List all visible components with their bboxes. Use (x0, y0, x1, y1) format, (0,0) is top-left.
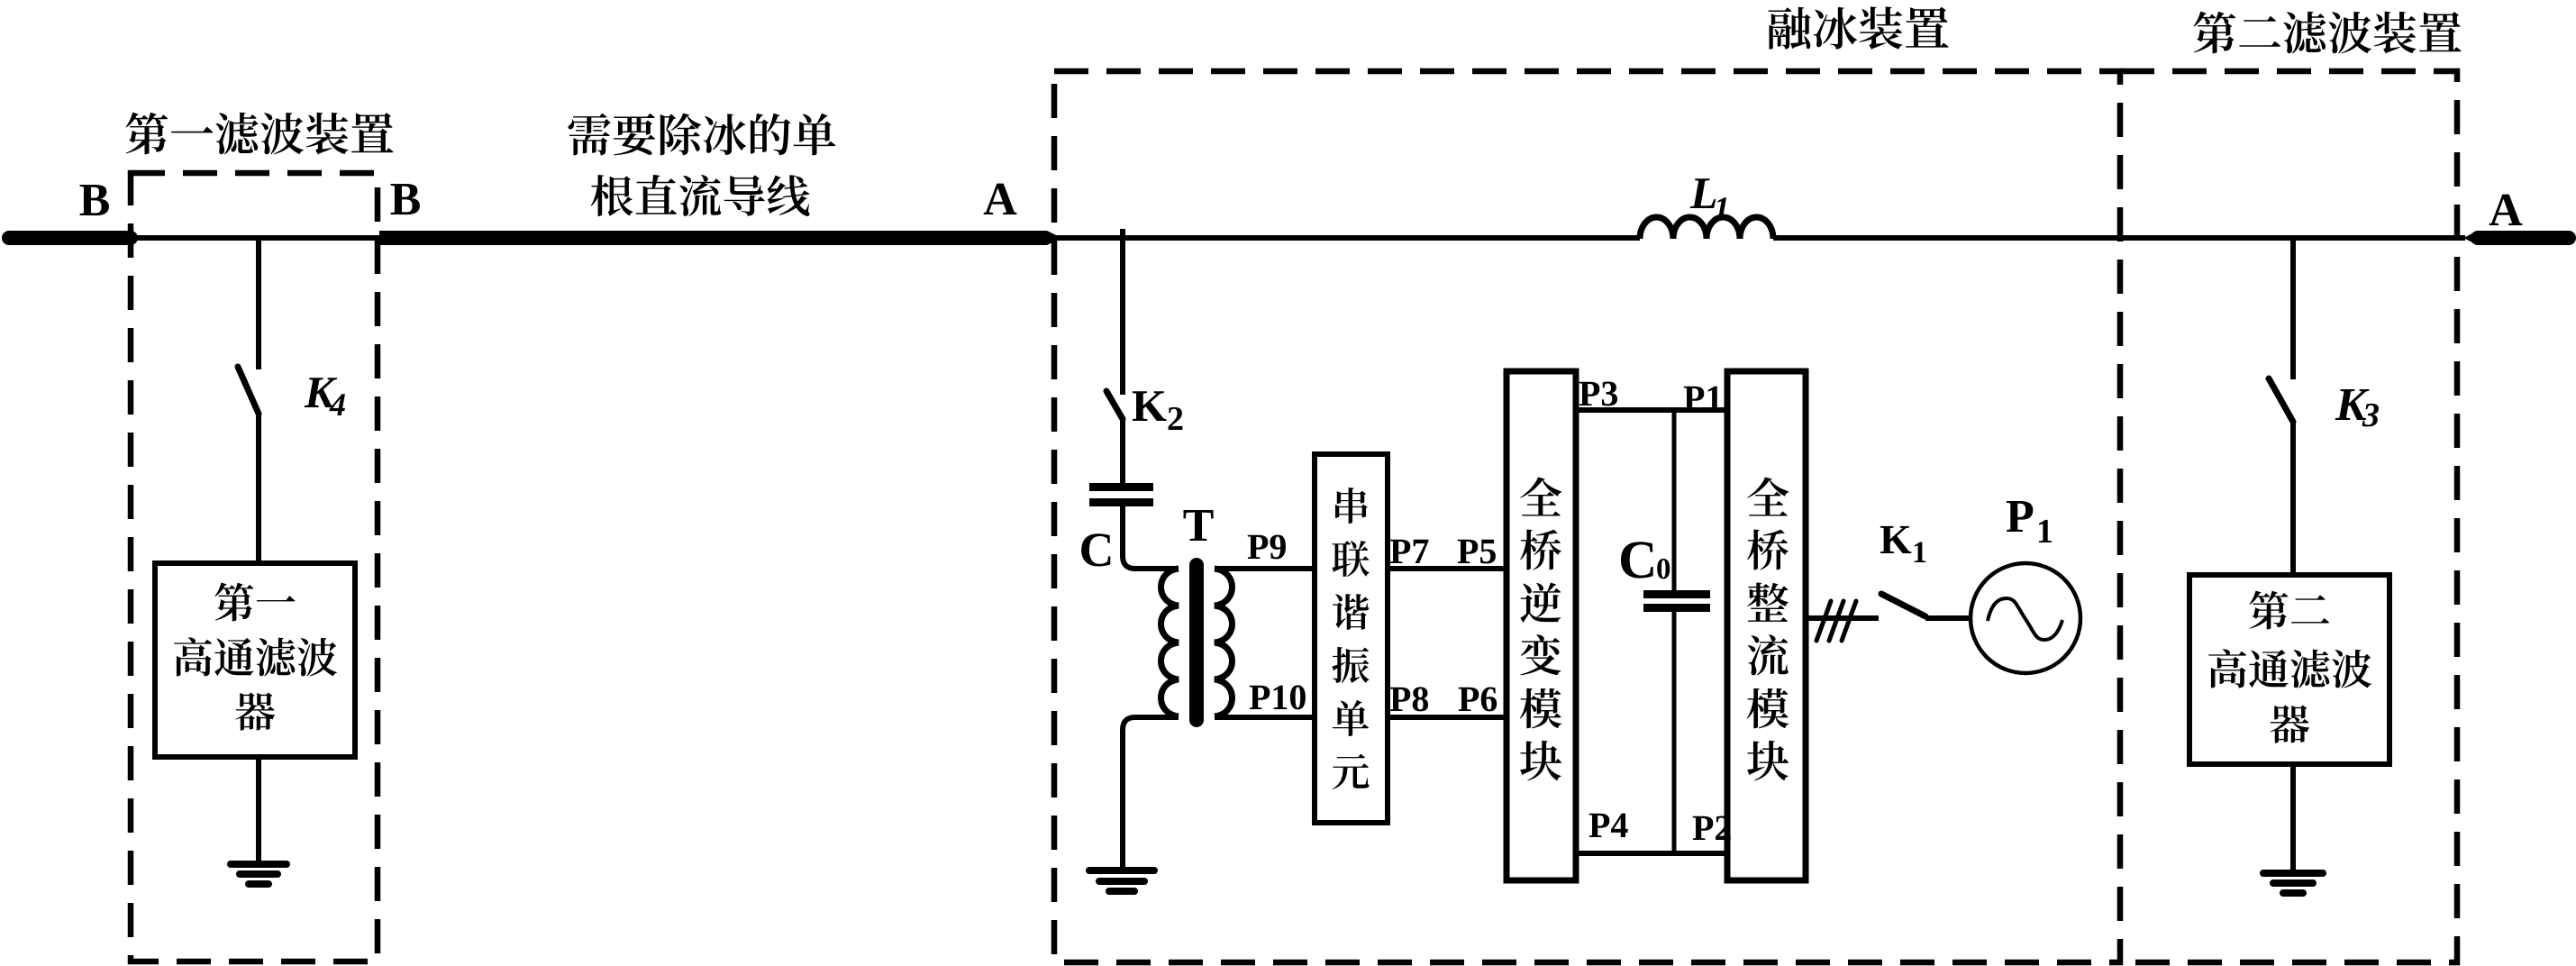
node junction bus to K2 branch (1120, 229, 1125, 395)
first filter device label 第一滤波装置 (126, 113, 394, 155)
full-bridge rectifier module box (1727, 371, 1806, 880)
wire bus to switch K3 (2290, 238, 2296, 379)
wire C0 top (1672, 410, 1677, 590)
wire P3 to P1 inverter to rectifier top (1576, 407, 1727, 413)
port label P3 (1579, 382, 1617, 406)
transformer T label (1184, 510, 1214, 541)
port label P8 (1390, 687, 1428, 711)
switch K2 blade (1106, 391, 1123, 419)
port label P6 (1459, 688, 1497, 712)
switch K2 label (1133, 391, 1183, 430)
port label P4 (1589, 814, 1628, 837)
ground second filter (2263, 873, 2323, 893)
series resonant unit label 串联谐振单元 (1332, 488, 1369, 789)
second high-pass filter box (2189, 575, 2389, 764)
wire P4 to P2 inverter to rectifier bottom (1576, 851, 1727, 856)
node A label left (984, 184, 1017, 214)
wire P9 transformer secondary to resonant unit (1215, 566, 1315, 571)
port label P10 (1250, 685, 1306, 709)
series resonant unit box U1 (1315, 454, 1388, 823)
ground transformer (1089, 870, 1154, 891)
second high-pass filter label 第二高通滤波器 (2208, 591, 2371, 743)
wire bus thin inside first filter device (131, 235, 379, 241)
ice-melting device dashed enclosure (1054, 71, 2120, 962)
AC source P1 circle (1971, 563, 2080, 673)
switch K1 label (1880, 526, 1925, 562)
switch K3 blade (2269, 378, 2293, 422)
first high-pass filter box (155, 563, 355, 757)
wire K2 to capacitor C (1120, 419, 1125, 483)
transformer T core (1189, 565, 1204, 720)
wire filter to ground (2290, 764, 2296, 872)
inductor L1 (1640, 217, 1773, 239)
wire bus node B to node A thick conductor segment (379, 231, 1047, 245)
wire bus thin to second filter device (1773, 235, 2465, 241)
wire K1 to source P1 (1925, 615, 1971, 621)
L1 value label (1690, 178, 1727, 219)
AC source P1 sine wave (1988, 598, 2062, 640)
second filter device label 第二滤波装置 (2194, 12, 2462, 54)
capacitor C label (1081, 533, 1110, 566)
node B label left (80, 185, 109, 215)
wire filter to ground (256, 757, 261, 863)
full-bridge rectifier label 全桥整流模块 (1747, 477, 1789, 780)
wire switch K4 to first high-pass filter (256, 414, 261, 563)
node B label right (391, 184, 420, 214)
capacitor C plates (1089, 483, 1153, 491)
conductor label line2 根直流导线 (591, 175, 810, 216)
port label P2 (1693, 816, 1731, 840)
capacitor C0 plates (1643, 590, 1710, 598)
first filter device dashed enclosure (131, 173, 378, 961)
switch K4 blade (238, 367, 259, 414)
wire P10 transformer secondary to resonant unit (1215, 715, 1315, 720)
transformer T primary winding (1161, 569, 1179, 716)
transformer T secondary winding (1215, 569, 1233, 716)
wire P8 to P6 resonant unit to inverter (1388, 715, 1506, 720)
first high-pass filter label 第一高通滤波器 (174, 583, 337, 731)
wire capacitor C to transformer primary (1123, 506, 1179, 569)
switch K4 label (305, 378, 345, 415)
port label P5 (1458, 540, 1496, 564)
wire P7 to P5 resonant unit to inverter (1388, 566, 1506, 571)
hatch marks (crossed conductors) (1816, 601, 1856, 641)
conductor label line1 需要除冰的单 (569, 114, 836, 156)
switch K1 blade (1881, 594, 1925, 616)
node A label right (2490, 195, 2523, 225)
AC source P1 label (2007, 501, 2052, 542)
port label P7 (1390, 540, 1429, 563)
wire bus thin inside ice-melting device (1054, 235, 1640, 241)
wire bus to switch K4 (256, 238, 261, 369)
wire transformer primary bottom return (1123, 717, 1179, 870)
switch K3 label (2335, 389, 2379, 426)
ground first filter (231, 864, 287, 884)
wire rectifier output to K1 (1806, 615, 1879, 621)
capacitor C0 label (1621, 542, 1670, 579)
second filter device dashed enclosure (2120, 71, 2457, 962)
full-bridge inverter module box (1506, 371, 1576, 880)
port label P9 (1248, 535, 1286, 560)
wire K3 to second high-pass filter (2290, 422, 2296, 575)
wire C0 bottom (1672, 612, 1677, 853)
ice-melting device label 融冰装置 (1768, 6, 1948, 50)
port label P1 top (1684, 387, 1722, 410)
wire bus node A thick right segment (2463, 231, 2478, 245)
wire bus node B thick left segment (9, 231, 131, 245)
full-bridge inverter label 全桥逆变模块 (1520, 477, 1561, 780)
